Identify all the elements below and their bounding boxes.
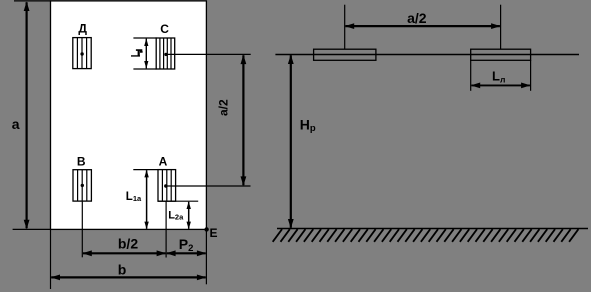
dimension P2 (horizontal) xyxy=(166,250,206,256)
extension line below А xyxy=(165,201,167,257)
leader wire from А center to a/2 dimension xyxy=(166,185,251,187)
svg-text:a/2: a/2 xyxy=(407,10,427,26)
svg-text:b: b xyxy=(118,262,127,278)
vibrator plate right xyxy=(471,49,531,60)
extension line from left plate center xyxy=(344,5,346,50)
radiator С xyxy=(156,38,175,69)
extension line below В xyxy=(81,201,83,257)
radiator Д xyxy=(73,38,91,69)
earth line xyxy=(277,228,588,230)
radiator А xyxy=(158,170,176,202)
point E xyxy=(204,227,208,231)
svg-text:Д: Д xyxy=(78,22,87,36)
panel (white mounting plate) xyxy=(51,1,207,230)
extension line top-left of panel xyxy=(14,0,51,2)
extension line from right plate center xyxy=(500,5,502,50)
dimension L2a (vertical) xyxy=(187,201,191,229)
leader wire from С center to a/2 dimension xyxy=(166,53,251,55)
surface line (right diagram) xyxy=(275,54,579,56)
earth hatching xyxy=(273,229,579,242)
extension line А top (extends left) xyxy=(133,169,158,171)
dimension 5 extension lines (slot height of С) xyxy=(133,37,156,39)
dimension a/2 (vertical, left diagram) xyxy=(241,55,247,186)
svg-text:a: a xyxy=(12,116,20,132)
dimension b/2 (horizontal) xyxy=(82,250,166,256)
vibrator plate left xyxy=(314,49,376,60)
svg-text:a/2: a/2 xyxy=(216,99,230,116)
svg-text:А: А xyxy=(159,155,168,169)
extension line below panel left edge xyxy=(50,229,52,289)
dimension L1a (vertical) xyxy=(144,170,148,229)
radiator В xyxy=(73,170,91,201)
extension line А bottom (extends right) xyxy=(158,200,198,202)
dimension Hp (vertical) xyxy=(288,55,294,229)
dimension b (horizontal) xyxy=(51,275,207,281)
dimension Lл (horizontal) xyxy=(471,83,531,89)
extension line bottom of panel (extends left) xyxy=(13,228,51,230)
dimension a/2 (horizontal, right diagram) xyxy=(345,23,501,29)
label 5 xyxy=(131,49,143,56)
dimension 5 arrow line xyxy=(144,38,148,69)
svg-text:С: С xyxy=(160,22,169,36)
svg-text:В: В xyxy=(77,155,86,169)
extension line below panel right edge xyxy=(205,229,207,284)
extension lines for Lл xyxy=(470,60,472,91)
dimension a (vertical, left) xyxy=(24,2,30,230)
svg-text:Е: Е xyxy=(210,226,218,240)
svg-text:b/2: b/2 xyxy=(118,236,138,252)
